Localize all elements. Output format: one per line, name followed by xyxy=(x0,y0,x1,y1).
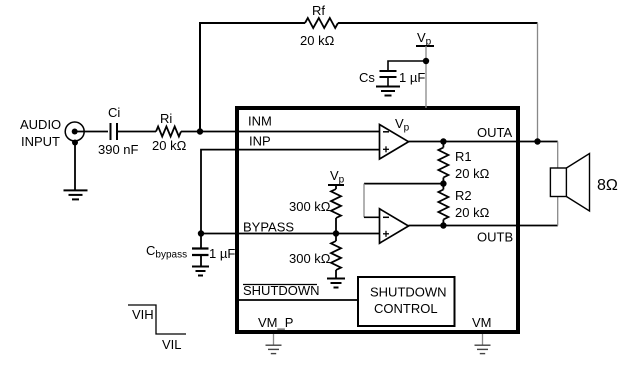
junction BYPASS/Cbypass xyxy=(198,230,204,236)
svg-text:20 kΩ: 20 kΩ xyxy=(455,166,490,181)
waveform VIH/VIL xyxy=(128,305,186,334)
junction R1/R2 xyxy=(440,180,446,186)
svg-text:OUTA: OUTA xyxy=(477,125,512,140)
ground (Cs) xyxy=(376,87,400,96)
wire jack to Ci xyxy=(77,131,108,133)
svg-text:8Ω: 8Ω xyxy=(597,177,618,194)
junction feedback/OUTA xyxy=(534,138,540,144)
svg-text:1 µF: 1 µF xyxy=(209,246,235,261)
resistor R1 xyxy=(438,142,448,184)
svg-text:CONTROL: CONTROL xyxy=(374,301,438,316)
capacitor Cs xyxy=(380,71,397,86)
svg-text:300 kΩ: 300 kΩ xyxy=(289,199,331,214)
svg-text:OUTB: OUTB xyxy=(477,230,513,245)
resistor Ri xyxy=(156,127,181,137)
svg-text:Ci: Ci xyxy=(108,105,120,120)
wire feedback top right xyxy=(338,22,538,24)
svg-text:300 kΩ: 300 kΩ xyxy=(289,251,331,266)
svg-text:INM: INM xyxy=(248,114,272,129)
junction Vp/Cs xyxy=(423,58,429,64)
ground (300k divider) xyxy=(327,279,345,288)
wire BYPASS xyxy=(201,233,379,235)
svg-text:SHUTDOWN: SHUTDOWN xyxy=(370,285,447,300)
svg-text:1 µF: 1 µF xyxy=(399,70,425,85)
op-amp U1B xyxy=(380,209,409,243)
resistor 300k upper xyxy=(331,185,341,234)
op-amp U1A xyxy=(380,125,409,160)
ground (VM_P) xyxy=(266,345,282,353)
svg-text:VM: VM xyxy=(472,315,492,330)
wire OUTB xyxy=(409,225,558,227)
resistor Rf xyxy=(305,18,338,28)
wire Ci to Ri xyxy=(117,131,156,133)
wire INP down to BYPASS xyxy=(201,150,380,234)
svg-text:BYPASS: BYPASS xyxy=(243,220,294,235)
resistor 300k lower xyxy=(331,234,341,279)
wire VM ground stem xyxy=(482,334,484,345)
pin label SHUTDOWN (with overline) xyxy=(243,283,320,298)
power symbol Vp (top) xyxy=(416,45,434,47)
svg-text:R1: R1 xyxy=(455,149,472,164)
wire op-amp2 feedback drop xyxy=(363,184,365,218)
wire OUTA to speaker xyxy=(557,142,559,169)
svg-text:SHUTDOWN: SHUTDOWN xyxy=(243,283,320,298)
capacitor Ci xyxy=(111,123,118,140)
power symbol Vp (divider) xyxy=(328,184,344,186)
connector audio input jack xyxy=(65,122,84,146)
block SHUTDOWN CONTROL xyxy=(358,277,455,326)
svg-text:INP: INP xyxy=(249,134,271,149)
junction OUTA/R1 xyxy=(440,138,446,144)
IC body U1 xyxy=(237,108,518,332)
ground (audio input) xyxy=(64,190,88,199)
wire feedback drop to OUTA xyxy=(537,23,539,142)
svg-text:20 kΩ: 20 kΩ xyxy=(300,33,335,48)
ground (VM) xyxy=(475,345,491,353)
wire VM_P ground stem xyxy=(273,334,275,345)
wire OUTB to speaker xyxy=(557,197,559,226)
svg-text:VIL: VIL xyxy=(162,337,182,352)
svg-text:R2: R2 xyxy=(455,188,472,203)
junction Rf/INM xyxy=(197,128,203,134)
svg-text:20 kΩ: 20 kΩ xyxy=(455,205,490,220)
svg-text:20 kΩ: 20 kΩ xyxy=(152,138,187,153)
junction R2/OUTB xyxy=(440,222,446,228)
svg-text:Ri: Ri xyxy=(160,111,172,126)
wire op-amp2 minus input xyxy=(364,216,380,218)
junction BYPASS/divider xyxy=(333,230,339,236)
svg-text:INPUT: INPUT xyxy=(21,134,60,149)
wire Ri to INM (through IC edge to op-amp) xyxy=(181,131,380,133)
svg-text:AUDIO: AUDIO xyxy=(20,117,61,132)
svg-text:VM_P: VM_P xyxy=(258,315,293,330)
svg-text:390 nF: 390 nF xyxy=(98,142,139,157)
wire SHUTDOWN xyxy=(239,299,358,301)
wire Vp stem to IC xyxy=(425,46,427,108)
resistor R2 xyxy=(438,184,448,226)
capacitor Cbypass xyxy=(192,234,209,267)
wire op-amp2 feedback top xyxy=(364,183,443,185)
wire OUTA xyxy=(409,141,558,143)
svg-text:Cs: Cs xyxy=(359,70,375,85)
speaker 8 Ohm xyxy=(550,154,589,212)
svg-text:Rf: Rf xyxy=(312,3,325,18)
wire jack ground stem xyxy=(74,143,76,190)
ground (Cbypass) xyxy=(192,267,209,276)
svg-text:VIH: VIH xyxy=(132,307,154,322)
wire feedback left (Rf left leg) xyxy=(200,23,305,132)
wire Cs branch xyxy=(388,61,426,71)
